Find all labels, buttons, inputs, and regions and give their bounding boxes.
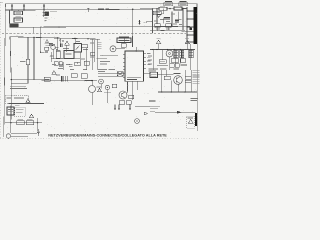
wire vertical x94	[94, 40, 96, 62]
wire vertical x63 lower	[62, 62, 64, 70]
wire right rail y49.5	[150, 49, 195, 51]
wire module pin drop 2	[118, 105, 120, 110]
label above thermistor	[18, 118, 24, 120]
wire links lower cluster	[157, 18, 168, 32]
wire vertical x9.5 top-left	[9, 10, 11, 24]
earth circle symbol	[135, 119, 140, 124]
connector terminal strip (black bar)	[193, 7, 197, 44]
node junction x44	[43, 9, 44, 10]
label rows in driver box	[151, 74, 157, 76]
small box under module left	[112, 84, 116, 87]
wire horizontal y76	[98, 75, 117, 77]
wire drop from rail to IC box	[132, 9, 134, 47]
small boxes under T630	[119, 101, 125, 105]
resistor R621 on rail	[174, 7, 182, 10]
pin ticks on module left edge	[123, 55, 125, 78]
capacitor C651 across rail	[66, 76, 68, 82]
resistor R661	[171, 59, 179, 62]
box power unit bottom-left	[7, 107, 14, 115]
wire long rail B right side	[150, 30, 196, 31]
terminal blob at end of rail B	[194, 30, 197, 32]
small box pair lower left	[54, 62, 58, 66]
label in dashed box	[188, 117, 194, 119]
wire horizontal y73.6 to module	[98, 73, 125, 75]
bottom edge ruler tick marks	[0, 138, 200, 140]
wire vertical x77 lower	[76, 62, 78, 64]
crossed box fuse symbol	[117, 72, 123, 76]
label rows bottom right	[190, 98, 198, 100]
label text above box B	[180, 0, 187, 2]
capacitor C611	[164, 18, 170, 20]
wire vertical x40 with corner	[41, 27, 45, 53]
left edge ruler tick marks	[0, 2, 3, 138]
wire vertical x86 lower	[85, 62, 87, 70]
wire verticals right cluster	[153, 44, 191, 70]
node junctions on x187 vertical	[186, 10, 187, 35]
wire cluster link	[162, 9, 164, 14]
wire vertical x97	[96, 39, 98, 70]
transistor T630 circle	[119, 91, 127, 99]
capacitor C615	[175, 21, 179, 23]
svg-text:NETZVERBUNDEN/MAINS-CONNECTED/: NETZVERBUNDEN/MAINS-CONNECTED/COLLEGATO …	[48, 134, 167, 138]
wire horizontal y92 right	[158, 91, 197, 93]
wire vertical x183	[182, 9, 184, 31]
node junctions right rail	[152, 49, 191, 50]
label row under R601	[16, 15, 22, 17]
line cord circle	[6, 134, 10, 138]
resistor R662	[180, 59, 186, 62]
label 220V above rail	[98, 8, 109, 10]
resistor pair RV1 vertical	[174, 50, 178, 57]
tiny label specks top-right cluster	[154, 7, 182, 29]
component box right end lower rail	[44, 77, 50, 81]
label above transistor	[174, 72, 181, 74]
wire stub into R601	[17, 10, 19, 11]
label rows in power unit box	[8, 110, 13, 112]
wire long rail A y27	[33, 25, 190, 28]
transistor T660 circle	[174, 76, 183, 85]
motor circle symbol	[166, 50, 173, 57]
wire vertical x66	[65, 45, 67, 52]
capacitor marks below box x46	[45, 52, 48, 53]
node junction y122.7 b	[37, 122, 38, 123]
tiny label specks left column x97	[97, 42, 102, 49]
node junction x12	[11, 9, 12, 10]
dashed box bottom-left 2	[15, 107, 26, 117]
tiny label rows center cluster	[49, 42, 94, 70]
label text rows left power unit	[10, 86, 27, 88]
wire vertical x34	[33, 37, 35, 80]
vertical box component x57	[56, 51, 60, 58]
label row bottom right of cluster	[181, 64, 188, 66]
resistor R647 small	[75, 62, 81, 66]
label rows above box lower right	[149, 69, 180, 71]
wire vertical x60	[60, 38, 62, 43]
wire horizontal y112 with arrow	[155, 111, 195, 113]
pin number speck near J3	[144, 22, 146, 24]
wire stub from top border to rail at x24	[23, 4, 25, 10]
warning triangle bottom-left	[29, 114, 33, 118]
node junction x57.5	[57, 37, 58, 38]
pin labels right of module	[147, 54, 151, 65]
small box left column	[49, 43, 53, 46]
capacitor C642	[59, 65, 63, 66]
capacitor C601 box	[14, 18, 23, 22]
pin label text column right	[193, 70, 200, 83]
connector J3 hanging	[138, 20, 140, 25]
dashed separation line upper	[2, 32, 186, 34]
scan noise speckles	[5, 4, 198, 133]
diode D610	[157, 14, 162, 18]
label rows far right bottom	[150, 106, 160, 111]
diode D641	[55, 48, 58, 51]
dashed box lower-left	[5, 96, 28, 104]
arrowhead on y112 wire	[177, 111, 182, 114]
connector pin P1 on rail	[87, 8, 89, 12]
node junction x88	[87, 38, 88, 39]
driver box lower right	[150, 72, 158, 77]
node junction lower rail left	[11, 79, 12, 80]
wire module pin drop 3	[129, 104, 131, 109]
resistor R660 with label	[159, 60, 166, 64]
wire vertical x152.5	[152, 9, 154, 33]
wire bus left vertical long	[10, 37, 11, 133]
mains plug symbol	[37, 129, 40, 136]
wire to right section	[135, 106, 150, 108]
warning triangle center cluster	[65, 41, 69, 45]
warning triangle x47	[45, 40, 48, 43]
wire from driver box to transistor	[158, 74, 174, 76]
wire main mains rail	[6, 8, 188, 10]
resistor stack right of transistor	[185, 77, 191, 80]
wire vertical x33 to dashed line	[32, 27, 34, 33]
terminal blob at end of rail A	[189, 27, 192, 29]
label above switch	[27, 118, 33, 120]
resistor R624	[155, 24, 161, 27]
dark text speck row mid cluster	[175, 19, 182, 21]
wire verticals lower right	[162, 70, 192, 92]
connector mini terminal strip (black)	[195, 113, 197, 126]
warning triangle right B	[185, 40, 189, 44]
value label small near x52	[50, 11, 57, 13]
wire horizontal y103.5	[9, 103, 45, 105]
resistor R601 box top-left	[14, 11, 23, 14]
node junction x132	[132, 9, 134, 11]
warning triangle bottom right	[189, 120, 193, 124]
pin ticks on module right edge	[144, 54, 146, 69]
control IC sub-box above	[117, 38, 131, 43]
label rows mid-left of module	[98, 70, 115, 72]
node junction x157	[156, 8, 157, 9]
label in mid box	[66, 53, 72, 55]
node junction x183	[182, 8, 183, 9]
small box right of T630	[129, 95, 134, 99]
box component above rail	[71, 74, 77, 78]
label rows in dashed box	[7, 97, 25, 99]
tiny label rows left of right cluster	[148, 56, 152, 64]
label box top-right B	[179, 3, 188, 6]
resistor R620 on rail	[159, 7, 167, 10]
warning triangle lower-left	[26, 99, 30, 103]
degauss coil circle	[89, 86, 96, 93]
base resistor small	[164, 76, 170, 80]
node junction on rail A	[58, 26, 59, 27]
optocoupler box	[74, 44, 82, 53]
wire branch corner near x152	[147, 19, 153, 22]
resistor pair RV2 vertical	[180, 50, 184, 57]
page border top	[6, 3, 198, 5]
connector circle mid-bottom A	[99, 79, 104, 84]
label below y103.5 wire	[15, 105, 20, 107]
arrow small right	[144, 112, 148, 115]
capacitor C640	[61, 44, 63, 48]
wire loop below rail	[11, 80, 28, 83]
box component mid	[64, 51, 74, 59]
wire stub from top border to rail at x44	[43, 4, 45, 10]
resistor R649 small	[90, 53, 95, 56]
wire horizontal mid rail sloped	[10, 37, 100, 40]
switch box on wire	[26, 121, 33, 125]
transistor T630 internals	[122, 92, 125, 98]
dark label row bottom of cluster	[157, 65, 168, 67]
wire horizontal y133	[11, 132, 37, 134]
label above triangle A	[157, 37, 161, 39]
warning triangle mid-bottom	[98, 88, 102, 92]
small boxes bottom of cluster	[170, 64, 175, 67]
resistor R640 vertical	[26, 59, 30, 65]
label inside module part number	[127, 77, 141, 79]
capacitor C650 across rail	[62, 76, 64, 82]
wire from indicator circle to module	[116, 48, 125, 50]
page border right	[196, 4, 198, 131]
transistor internal lines	[176, 77, 179, 83]
label right of degauss	[97, 86, 102, 88]
wire vertical x187 left of strip	[186, 7, 188, 44]
wire module top stub	[135, 47, 137, 51]
label above sub-box	[119, 36, 129, 38]
sub-box divider	[123, 38, 125, 43]
opto diode mark	[76, 46, 80, 51]
fuse SI601 dark blob	[45, 12, 49, 16]
node junction x34 top	[33, 37, 34, 38]
connector ticks left of fuse	[43, 11, 45, 17]
module right pin stub	[144, 73, 151, 75]
wire vertical x92	[91, 40, 93, 70]
label inside sub-box	[119, 39, 130, 41]
wire stub from top border to rail at x12	[11, 4, 13, 10]
node junction x152.5	[152, 8, 153, 9]
pin name text rows left of module	[97, 56, 119, 59]
label above triangle B	[185, 37, 189, 39]
label inside small box	[154, 12, 160, 14]
wire horizontal y58.7	[51, 58, 80, 60]
label text above box A	[165, 0, 172, 2]
node junction on module top	[136, 50, 137, 51]
wire vertical x52 below lamp	[51, 52, 53, 62]
connector dots on rail	[60, 40, 61, 41]
hybrid module U600 big box	[125, 51, 144, 81]
wire vertical x157	[156, 9, 158, 24]
tiny label above rail	[56, 74, 60, 76]
wire vertical x37.5	[37, 118, 39, 131]
wire degauss drops	[91, 81, 93, 105]
wire vertical x75 drop	[74, 39, 76, 44]
label text B	[180, 3, 187, 5]
value label R640	[20, 61, 25, 63]
wire module pin drop 1	[114, 105, 116, 110]
resistor R648 small	[84, 61, 89, 65]
small box near circle	[121, 44, 126, 48]
specks below fuse	[45, 18, 48, 21]
lamp circle LP1	[51, 45, 55, 49]
posistor label	[45, 78, 49, 80]
warning triangle right A	[156, 40, 160, 44]
indicator circle with dot	[110, 46, 116, 52]
resistor R625	[166, 24, 172, 27]
wire cluster link2	[177, 12, 179, 21]
thermistor box on wire	[17, 121, 24, 125]
wire vertical x86	[85, 48, 87, 62]
dashed box bottom right	[187, 116, 195, 128]
warning triangle lower	[52, 71, 56, 75]
tick at branch end	[146, 21, 148, 23]
small box left of strip under rail	[153, 11, 161, 15]
label row under circles	[104, 91, 111, 93]
label TDA lower	[149, 100, 156, 102]
node junction x24	[23, 9, 24, 10]
node junction x170	[169, 8, 170, 9]
node junctions on y92	[161, 91, 185, 92]
resistor pair RV3 vertical	[189, 50, 193, 57]
wire vertical x172	[171, 12, 173, 27]
wire vertical x57.5 drop	[57, 38, 59, 51]
wire module drop to T630	[126, 82, 128, 91]
wire from relay to long rail A	[18, 26, 33, 28]
page border left	[4, 4, 6, 137]
wire horizontal y122.7	[5, 122, 42, 124]
label box top-right A	[164, 3, 173, 6]
wire from cord circle	[11, 135, 28, 137]
wire drops under module	[128, 81, 138, 100]
wire triangle stems	[159, 44, 188, 50]
wire drops from circles	[101, 84, 107, 103]
wire vertical x53 drop	[52, 50, 54, 59]
label rows x45	[45, 44, 52, 46]
relay coil box x46	[45, 47, 49, 50]
resistor R645 horizontal	[82, 45, 88, 48]
relay RL601 dark block	[10, 24, 19, 27]
value text inside C601	[15, 19, 21, 21]
label rows in dashed box2	[16, 110, 24, 112]
wire lower rail y79.5	[11, 80, 97, 81]
node junction y122.7 a	[10, 122, 11, 123]
box component above rail 2	[81, 74, 87, 78]
wire stub to mini strip	[194, 111, 196, 114]
value text inside R601	[15, 12, 21, 14]
connector circle mid-bottom B	[105, 85, 109, 89]
capacitor C643	[69, 65, 73, 66]
wire stubs from x187 into strip	[187, 11, 193, 42]
wire vertical x80	[79, 52, 81, 62]
node junction x75	[74, 38, 75, 39]
label text A	[165, 3, 172, 5]
wire vertical x28	[27, 37, 29, 80]
